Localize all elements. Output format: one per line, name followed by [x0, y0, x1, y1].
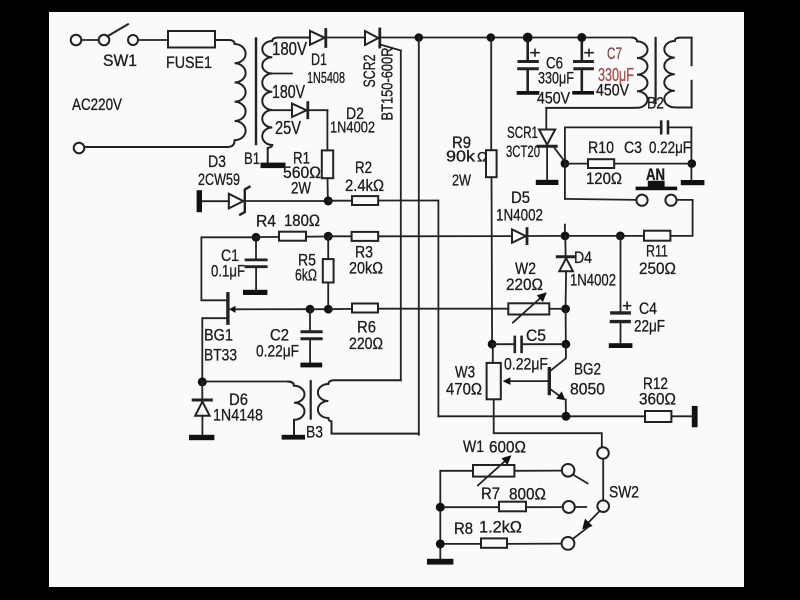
svg-text:D1: D1: [311, 50, 327, 69]
wire R7 row: [445, 506, 499, 508]
ground C1: [243, 290, 267, 295]
capacitor C5: [492, 337, 561, 352]
svg-text:6kΩ: 6kΩ: [295, 266, 317, 285]
wire left column W1 R7 R8: [440, 471, 473, 559]
svg-text:800Ω: 800Ω: [509, 485, 546, 504]
resistor R9: [486, 150, 497, 177]
wire R3 to D5: [378, 235, 512, 237]
wire C1 node to R4: [256, 236, 279, 238]
zener diode D3: [197, 187, 250, 215]
transformer B1 secondary winding: [262, 38, 310, 163]
svg-text:0.22μF: 0.22μF: [256, 342, 299, 361]
wire W1 to contact: [514, 470, 561, 472]
svg-text:W1: W1: [463, 437, 484, 456]
diode D5: [512, 229, 561, 244]
node D6 B3 junction: [198, 377, 207, 386]
svg-text:90k: 90k: [446, 149, 476, 166]
svg-text:1N4002: 1N4002: [496, 206, 543, 225]
wire B2 secondary right lower: [691, 81, 693, 108]
svg-text:FUSE1: FUSE1: [166, 53, 212, 72]
diode D1: [310, 30, 326, 47]
capacitor C2: [302, 309, 321, 362]
ground D6: [189, 435, 214, 440]
svg-text:R10: R10: [588, 138, 614, 157]
ground C2: [300, 363, 322, 368]
transformer B2 secondary winding: [664, 38, 691, 108]
svg-text:22μF: 22μF: [634, 317, 665, 336]
B1 center tap stub: [272, 73, 292, 75]
wire node to R2: [328, 200, 352, 202]
diode D4: [557, 236, 575, 305]
svg-text:SW2: SW2: [609, 483, 639, 502]
node BG2 emitter junction: [562, 412, 571, 421]
svg-text:BG2: BG2: [574, 360, 601, 379]
svg-text:1N5408: 1N5408: [307, 70, 345, 87]
wire SW2 contacts: [602, 459, 604, 501]
svg-text:0.22μF: 0.22μF: [649, 138, 691, 157]
wire R10 to C3 node: [614, 163, 691, 165]
svg-text:R2: R2: [355, 158, 372, 177]
svg-text:R4: R4: [256, 212, 276, 231]
svg-text:220Ω: 220Ω: [506, 275, 543, 294]
node SCR1 gate junction: [561, 159, 570, 168]
capacitor C4: [611, 236, 630, 343]
selector SW2 pole contact: [597, 500, 609, 512]
svg-text:470Ω: 470Ω: [446, 380, 482, 399]
wire R12 to terminal: [671, 415, 691, 417]
node D5 cathode junction: [561, 232, 570, 241]
ground C3 R10: [681, 180, 705, 185]
wire SCR2 gate line down to B3: [400, 51, 402, 381]
wire stub above D5 node: [564, 225, 566, 232]
wire R5 stems: [327, 236, 329, 259]
node R10 C3 junction: [688, 159, 697, 168]
wire R8 to contact: [507, 543, 562, 545]
transformer B3 secondary winding: [318, 380, 419, 433]
svg-text:C4: C4: [639, 299, 657, 318]
svg-text:SW1: SW1: [103, 51, 137, 70]
node R5 bottom junction: [324, 305, 333, 314]
transformer B2 core: [654, 38, 656, 103]
svg-text:450V: 450V: [596, 81, 630, 100]
capacitor C7: [572, 38, 594, 95]
wire D1 to SCR2: [327, 37, 365, 39]
switch SW1: [71, 24, 138, 45]
wire W2 to D4 node: [549, 308, 561, 310]
resistor R2: [352, 196, 378, 205]
diode D2: [292, 103, 327, 118]
wire C4 node to D4 node: [569, 235, 620, 237]
wire R8 row: [445, 543, 481, 545]
wire R9 down to C5 node: [491, 177, 494, 344]
wire R5 node to R6: [328, 308, 352, 310]
resistor R6: [352, 304, 378, 313]
resistor R3: [352, 232, 379, 241]
svg-text:D4: D4: [574, 248, 592, 267]
svg-text:R8: R8: [454, 519, 473, 538]
wire SW1 link: [82, 39, 99, 41]
ground B3 primary: [282, 435, 305, 440]
svg-text:BT33: BT33: [204, 346, 237, 365]
svg-text:D5: D5: [511, 188, 530, 207]
svg-text:Ω: Ω: [477, 149, 487, 165]
potentiometer W2: [508, 292, 549, 322]
node C1 junction: [252, 233, 261, 242]
svg-text:180Ω: 180Ω: [284, 211, 320, 230]
potentiometer W3: [487, 344, 548, 399]
contact R8 row: [562, 537, 575, 550]
svg-text:360Ω: 360Ω: [639, 390, 676, 409]
node R8 left junction: [436, 539, 445, 548]
node R7 left junction: [436, 503, 445, 512]
wire D4 to C5 node: [565, 309, 567, 340]
wire gate to R10: [565, 163, 588, 165]
node C5 right junction: [562, 340, 571, 349]
svg-text:2CW59: 2CW59: [198, 170, 240, 189]
wire SW1 to FUSE1: [138, 39, 168, 41]
wire B2 secondary right upper: [691, 38, 693, 66]
ground left column: [427, 559, 453, 565]
svg-text:B2: B2: [647, 94, 664, 113]
node C6 top junction: [523, 33, 533, 43]
wire gate loop vertical: [564, 127, 566, 198]
wire gate loop to AN: [565, 199, 637, 200]
svg-text:25V: 25V: [275, 118, 301, 138]
ground C4: [609, 343, 633, 348]
svg-text:D3: D3: [208, 152, 226, 171]
B1 tap to D2: [272, 109, 292, 111]
svg-text:330μF: 330μF: [538, 69, 574, 88]
wire B2 primary return to SCR1: [545, 108, 547, 130]
svg-text:C7: C7: [607, 44, 622, 63]
capacitor C3: [565, 122, 692, 134]
svg-text:600Ω: 600Ω: [489, 438, 526, 457]
resistor R5: [323, 259, 334, 282]
resistor R12: [645, 411, 671, 422]
resistor R1: [322, 150, 333, 178]
svg-text:BG1: BG1: [204, 326, 233, 345]
transistor BG2: [549, 344, 566, 412]
svg-text:AC220V: AC220V: [72, 95, 123, 114]
svg-text:450V: 450V: [537, 89, 571, 108]
wire top rail SCR2 to B2: [381, 37, 632, 39]
diode D6: [193, 382, 211, 435]
node R3 R5 junction: [324, 232, 333, 241]
svg-text:220Ω: 220Ω: [349, 334, 383, 353]
wire R7 to contact: [526, 506, 563, 508]
transformer B1 primary winding: [85, 40, 246, 147]
wire AN right to R11: [670, 200, 692, 236]
transformer B1 core: [255, 39, 257, 145]
svg-text:1.2kΩ: 1.2kΩ: [479, 518, 522, 537]
wire D3 to R1 node: [246, 200, 324, 202]
svg-text:R7: R7: [481, 484, 500, 503]
fuse FUSE1: [168, 31, 215, 48]
node D4 anode junction: [561, 305, 570, 314]
svg-text:SCR2: SCR2: [360, 55, 379, 88]
wire to R9: [490, 38, 492, 151]
wire emitter to R12: [571, 415, 646, 417]
svg-text:2.4kΩ: 2.4kΩ: [345, 176, 384, 195]
node C7 top junction: [577, 33, 586, 42]
wire main vertical to B3 secondary: [418, 38, 420, 435]
thyristor SCR2: [365, 29, 401, 51]
svg-text:0.22μF: 0.22μF: [504, 355, 548, 374]
node C5 left junction: [488, 340, 497, 349]
svg-text:20kΩ: 20kΩ: [349, 259, 383, 278]
wire D6 node to B3 primary: [202, 381, 288, 383]
resistor R7: [499, 502, 526, 512]
pushbutton AN: [636, 165, 678, 206]
wire W3 bottom to SW2: [494, 399, 602, 447]
svg-text:2W: 2W: [291, 179, 311, 198]
svg-text:BT150-600R: BT150-600R: [380, 48, 397, 121]
resistor R10: [588, 159, 614, 168]
svg-text:250Ω: 250Ω: [639, 259, 676, 278]
capacitor C6: [517, 38, 540, 95]
stub W1 contact: [573, 475, 588, 484]
svg-text:R11: R11: [646, 242, 668, 261]
selector SW2 top contact: [597, 447, 609, 459]
terminal R12 output: [692, 406, 698, 427]
AC220V lower terminal: [74, 143, 85, 154]
svg-text:B3: B3: [306, 423, 323, 442]
wire R2 to right vertical: [378, 201, 438, 417]
svg-text:SCR1: SCR1: [507, 123, 538, 142]
svg-text:180V: 180V: [272, 82, 305, 102]
svg-text:B1: B1: [244, 149, 260, 168]
ground B1: [261, 163, 286, 169]
capacitor C1: [246, 237, 266, 289]
svg-text:C3: C3: [624, 138, 642, 157]
wire C3 right down: [690, 127, 692, 180]
svg-text:180V: 180V: [272, 39, 307, 59]
stub R8 contact: [573, 527, 589, 539]
wire D2 down to R1: [326, 110, 328, 150]
node main rail junction: [415, 33, 424, 42]
wire node to R3: [328, 235, 351, 237]
contact R7 row: [563, 501, 575, 513]
node R9 top junction: [487, 33, 496, 42]
transformer B3 core: [310, 381, 312, 418]
wire R4 to node: [306, 236, 324, 238]
resistor R11: [644, 231, 670, 241]
svg-text:2W: 2W: [452, 173, 472, 190]
svg-text:3CT20: 3CT20: [506, 142, 540, 161]
potentiometer W1: [473, 455, 514, 485]
wire C2 node to R5 node: [310, 308, 324, 310]
svg-text:C5: C5: [526, 326, 546, 345]
ground SCR1: [536, 180, 559, 185]
node BG1 upper corner wire: [201, 237, 252, 300]
wire R6 to W2: [378, 308, 508, 310]
SW2 blade with arrow: [582, 511, 600, 530]
wire emitter rail: [438, 415, 561, 417]
transformer B3 primary winding: [288, 382, 305, 435]
svg-text:1N4002: 1N4002: [330, 120, 375, 137]
resistor R4: [279, 232, 306, 241]
contact W1 row: [562, 464, 575, 477]
svg-text:1N4148: 1N4148: [213, 406, 263, 425]
transformer B2 primary winding: [546, 38, 647, 108]
node R1 R2 junction: [324, 196, 333, 205]
thyristor SCR1: [538, 130, 565, 180]
svg-text:8050: 8050: [570, 380, 605, 399]
node C4 junction: [616, 232, 625, 241]
resistor R8: [481, 538, 507, 547]
transistor BG1: [202, 294, 305, 378]
node C2 junction: [306, 305, 315, 314]
svg-text:0.1μF: 0.1μF: [211, 262, 245, 281]
svg-text:120Ω: 120Ω: [586, 169, 622, 188]
stub R7 contact: [575, 506, 586, 508]
wire R11 to C4 node: [625, 235, 645, 237]
wire R1 to node: [327, 178, 329, 197]
svg-text:1N4002: 1N4002: [570, 271, 616, 290]
